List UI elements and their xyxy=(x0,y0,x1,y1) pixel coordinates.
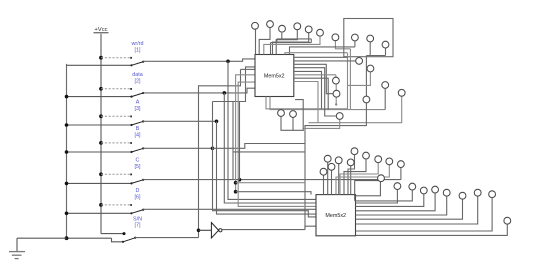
wire pin R1 stub xyxy=(354,41,356,47)
pin T2 xyxy=(267,21,274,28)
pin E4 xyxy=(432,186,439,193)
svg-text:wr/rd: wr/rd xyxy=(131,41,144,47)
node inverter input junction xyxy=(197,229,201,233)
pin D7 xyxy=(363,152,370,159)
pin D3 xyxy=(320,168,327,175)
wire D1 drop xyxy=(327,162,329,195)
wire Mem2 right pin 2 xyxy=(356,189,398,203)
wire M6 drop xyxy=(309,96,402,123)
svg-text:A: A xyxy=(136,100,140,106)
pin M9 xyxy=(278,110,285,117)
wire bundle y52 to R bus xyxy=(285,53,348,55)
wire S3 drop to Mem2 xyxy=(217,121,316,214)
wire D6 staircase xyxy=(340,163,378,195)
svg-text:[5]: [5] xyxy=(135,164,141,170)
pin D1 xyxy=(324,155,331,162)
label switch S2 xyxy=(132,72,143,84)
inverter U3 xyxy=(199,223,222,239)
wire R bus left vertical 2 xyxy=(270,49,385,110)
wire bus top second line xyxy=(233,151,305,153)
wire pin T1 stem xyxy=(255,29,257,54)
wire R1 link left xyxy=(290,47,355,55)
wire vertical x233 xyxy=(232,102,234,180)
label switch S5 xyxy=(135,158,141,170)
wire S5 output to pin D10 xyxy=(143,179,378,181)
wire pin T7 elbow xyxy=(335,41,350,49)
pin D9 xyxy=(386,158,393,165)
pin E2 xyxy=(409,183,416,190)
wire S6 output to Mem2 xyxy=(143,208,315,210)
wire pin T6 elbow xyxy=(264,36,320,54)
pin D4 xyxy=(335,157,342,164)
wire S4 vertical xyxy=(213,102,316,217)
wire D8 stem xyxy=(400,167,402,179)
pin T5 xyxy=(305,26,312,33)
pin D6 xyxy=(351,148,358,155)
wire pin R2 elbow xyxy=(369,42,371,56)
wire D3 drop xyxy=(350,166,352,195)
pin M6 xyxy=(398,89,405,96)
wire Mem1 right pin 1 xyxy=(294,56,348,58)
pin M10 xyxy=(290,111,297,118)
wire S4 loop to Mem2 right edge xyxy=(213,144,306,230)
pin R3 xyxy=(382,41,389,48)
switch S5 C xyxy=(65,172,145,185)
svg-text:D: D xyxy=(136,188,140,194)
wire M7 drop xyxy=(305,103,366,144)
wire net A vertical xyxy=(199,69,241,237)
wire Mem1 pin y67 staircase xyxy=(213,67,256,102)
wire Mem1 right pin 2 to M1 xyxy=(294,60,356,62)
wire M3 stem xyxy=(335,75,337,78)
svg-text:B: B xyxy=(136,126,140,132)
wire Mem2 right pin 9 xyxy=(356,224,508,235)
wire M5 drop xyxy=(384,88,386,109)
wire left rail xyxy=(66,64,68,238)
wire grey branch y183 xyxy=(236,182,305,184)
wire pin T4 elbow xyxy=(276,30,297,55)
svg-text:data: data xyxy=(132,72,143,78)
wire D9 drop xyxy=(323,175,325,195)
wire pin T2 elbow xyxy=(259,28,270,55)
wire Mem1 pin y82 grey xyxy=(238,82,315,206)
pin E8 xyxy=(489,191,496,198)
svg-text:[7]: [7] xyxy=(135,223,141,229)
node grey bus junction 2 xyxy=(234,181,238,185)
wire Mem1 right pin 6 to M3 xyxy=(294,74,336,76)
wire Mem2 right pin 1 xyxy=(356,190,413,201)
pin M5 xyxy=(382,82,389,89)
pin E7 xyxy=(474,189,481,196)
pin M8 xyxy=(336,113,343,120)
pin D8 xyxy=(375,156,382,163)
wire grey bus to Mem2 top xyxy=(236,192,311,195)
switch S3 A xyxy=(65,114,145,126)
pin T1 xyxy=(252,22,259,29)
wire D7 staircase xyxy=(336,165,389,195)
wire M8 drop xyxy=(303,119,340,128)
svg-text:S/N: S/N xyxy=(133,216,142,222)
svg-text:+Vcc: +Vcc xyxy=(94,27,107,33)
wire Mem2 right pin 4 xyxy=(356,193,436,211)
wire S1 drop to Mem2 xyxy=(228,61,316,199)
wire S3 output xyxy=(143,120,216,122)
pin T7 xyxy=(332,34,339,41)
pin T3 xyxy=(279,25,286,32)
wire Mem1 right pin 5 xyxy=(294,71,322,108)
wire M2 stub xyxy=(348,72,371,86)
wire Mem2 right pin 3 xyxy=(356,194,424,207)
switch S1 wr/rd xyxy=(67,56,145,67)
wire vertical x239 xyxy=(239,102,241,180)
pin D11 xyxy=(378,175,385,182)
wire pin T5 elbow xyxy=(273,33,309,55)
pin D5 xyxy=(347,159,354,166)
wire pin R3 elbow xyxy=(366,48,385,96)
wire S1 output to Mem1 pin xyxy=(143,59,255,61)
label switch S6 xyxy=(135,188,141,200)
svg-text:[1]: [1] xyxy=(135,47,141,53)
node S5 junction xyxy=(238,178,242,182)
pin E5 xyxy=(443,189,450,196)
power rail +Vcc label xyxy=(94,27,109,33)
label switch S1 xyxy=(131,41,144,53)
wire Mem2 right pin 6 xyxy=(356,199,463,219)
pin E1 xyxy=(394,183,401,190)
svg-text:C: C xyxy=(136,158,140,164)
svg-text:[4]: [4] xyxy=(135,133,141,139)
wire D1b drop xyxy=(331,170,333,195)
pin D10 xyxy=(398,161,405,168)
memory U1 Mem5x2 xyxy=(255,55,294,97)
wire Mem1 right pin 8 xyxy=(294,82,318,123)
svg-text:[3]: [3] xyxy=(135,106,141,112)
pin E3 xyxy=(420,187,427,194)
wire S7 output xyxy=(135,237,198,239)
wire R bus left vertical xyxy=(266,53,348,109)
label switch S4 xyxy=(135,126,141,138)
wire Mem1 pin y74 grey xyxy=(236,75,255,192)
wire S4 output xyxy=(143,147,212,149)
box U2 frame xyxy=(344,19,393,57)
node S3 junction xyxy=(215,120,219,124)
wire inverter jog into Mem2 xyxy=(305,226,316,229)
pin T6 xyxy=(317,29,324,36)
label switch S3 xyxy=(135,100,141,112)
wire D5 staircase xyxy=(344,159,366,195)
svg-text:[6]: [6] xyxy=(135,195,141,201)
wire Mem1 right pin 4 to M8 xyxy=(294,68,337,116)
wire +Vcc vertical rail xyxy=(101,34,124,234)
switch S7 S/N xyxy=(65,236,137,243)
pin M2 xyxy=(367,65,374,72)
wire Mem1 right pin 3 to M4 xyxy=(294,64,333,93)
wire U5 bottom stub xyxy=(354,196,356,201)
svg-text:Mem5x2: Mem5x2 xyxy=(264,73,285,79)
pin T4 xyxy=(294,23,301,30)
switch S2 data xyxy=(65,87,145,98)
pin E6 xyxy=(459,192,466,199)
svg-text:Mem5x2: Mem5x2 xyxy=(325,213,346,219)
wire Mem2 right pin 8 xyxy=(356,198,493,232)
wire D2 drop xyxy=(338,164,340,195)
node S2 junction xyxy=(223,91,227,95)
pin D2 xyxy=(328,163,335,170)
box U5 small frame xyxy=(355,181,381,196)
pin M1 xyxy=(356,58,363,65)
wire Mem2 right pin 7 xyxy=(356,196,478,224)
wire Mem1 right pin 7 xyxy=(294,78,328,109)
memory U4 Mem5x2 xyxy=(316,195,356,236)
pin M4 xyxy=(333,90,340,97)
label switch S7 xyxy=(133,216,142,228)
wire D4 staircase xyxy=(348,155,355,195)
node M4 lower node xyxy=(335,103,337,105)
ground xyxy=(9,238,67,258)
switch S4 B xyxy=(65,141,145,154)
wire M3-M4 through line xyxy=(335,84,337,104)
node grey bus junction xyxy=(234,190,238,194)
pin R1 xyxy=(352,34,359,41)
svg-text:[2]: [2] xyxy=(135,78,141,84)
wire pin T3 hairpin xyxy=(271,33,312,55)
wire S2 drop to Mem2 xyxy=(224,93,315,203)
switch S6 D xyxy=(65,203,145,215)
wire M9/M10 to Mem1 bottom xyxy=(281,100,303,131)
node S4 junction xyxy=(211,147,215,151)
wire Mem2 right pin 5 xyxy=(356,196,447,215)
wire Mem1 pin y69 stub xyxy=(241,68,256,70)
pin M3 xyxy=(333,77,340,84)
wire S2 output xyxy=(143,88,255,93)
wire inverter output to Mem2 xyxy=(222,229,305,231)
wire S5 extension to D8 stem xyxy=(384,179,401,181)
node Vcc rail end stub xyxy=(123,232,126,235)
pin E9 xyxy=(504,217,511,224)
pin R2 xyxy=(367,35,374,42)
pin M7 xyxy=(363,96,370,103)
node S1 junction xyxy=(226,60,230,64)
